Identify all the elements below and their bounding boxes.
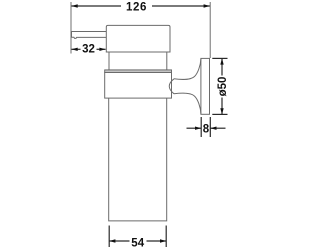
dimension 32 line [72,48,106,50]
spout tube [72,32,107,39]
dimension 54 arrows [109,239,166,242]
dimension 8 arrows [195,127,217,130]
extension lines thickness 8 [201,117,210,137]
svg-text:8: 8 [203,123,210,135]
pump head cap [106,25,170,52]
bottle body [109,98,167,221]
dimension 32 arrows [72,48,106,51]
dimension 54 line [109,240,166,242]
extension line right (plate face) [209,2,211,58]
dimension 8 line [187,127,226,129]
dimension 126 line [72,5,210,7]
extension lines width 54 [109,226,166,248]
dimension diameter 50 arrows [220,58,223,114]
extension lines diameter 50 [212,58,227,114]
dimension diameter 50 line [221,58,223,114]
svg-text:32: 32 [82,43,95,55]
pump neck [109,52,167,70]
svg-text:126: 126 [126,1,147,13]
wall plate [201,58,210,114]
collar strip [105,70,172,73]
dimension 126 arrows [72,4,210,7]
bracket cone [174,59,201,114]
svg-text:ø50: ø50 [217,77,229,97]
holder ring [105,73,172,99]
extension line left (spout tip) [70,2,72,54]
svg-text:54: 54 [131,237,144,249]
bracket post cap [169,79,174,94]
